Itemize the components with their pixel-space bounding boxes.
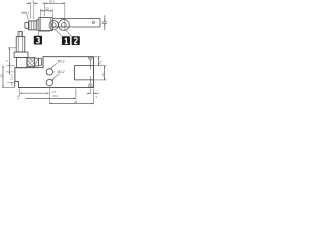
top view: sensor body — [39, 18, 52, 31]
svg-text:20.5: 20.5 — [49, 0, 55, 4]
svg-text:12.5: 12.5 — [9, 74, 13, 80]
dim 12 extension lines — [40, 9, 52, 17]
left dim 4.5 notch — [14, 82, 16, 88]
top view: bracket plate side — [53, 19, 101, 28]
front view: mounting hole 2 — [46, 79, 52, 85]
dim 3 arrows — [27, 3, 39, 4]
leader to label 1 — [56, 30, 63, 37]
dim 3 extension lines — [31, 2, 34, 19]
right dim 7.5 — [94, 57, 101, 66]
left dim 6 — [7, 48, 17, 66]
front view: washer A — [35, 58, 39, 66]
left dim 12.5 — [6, 66, 15, 83]
front view: bracket outline — [15, 57, 94, 88]
front view: slot window — [75, 66, 94, 80]
front view: flange — [14, 52, 28, 57]
bottom dim B — [25, 89, 76, 100]
bottom dim 4 — [87, 89, 99, 95]
top view: small hole in plate — [92, 21, 94, 23]
leader M9x1 — [27, 14, 29, 19]
svg-text:7.5: 7.5 — [98, 60, 102, 65]
svg-text:M9x1: M9x1 — [21, 11, 29, 15]
optical axis marker bottom — [88, 76, 92, 86]
front view: sensor stem — [18, 31, 23, 36]
top view: washer — [37, 20, 39, 30]
top view: toothed washer circle — [49, 20, 58, 29]
svg-text:Ø4.2: Ø4.2 — [58, 60, 65, 64]
dim 20.5 line — [42, 3, 64, 5]
top view: plate thickness dim — [102, 15, 107, 30]
svg-text:Ø4.2: Ø4.2 — [58, 70, 65, 74]
front view: mounting hole 1 — [46, 69, 52, 75]
top view: knurled nut — [29, 21, 37, 30]
leader to label 3 — [38, 32, 50, 36]
leader dia 4.2 lower — [51, 74, 59, 81]
front view: lower body — [16, 57, 27, 67]
bottom dim 45 — [49, 89, 93, 105]
left dim 25 — [2, 66, 15, 88]
leader dia 4.2 upper — [50, 63, 57, 70]
front view: nut cross-section hatched — [27, 58, 35, 67]
bottom ext line sensor axis — [19, 89, 21, 97]
label square 2 — [72, 36, 80, 45]
hole centerline ticks — [53, 71, 55, 73]
svg-text:35.2: 35.2 — [52, 94, 58, 98]
bottom dim A — [20, 92, 49, 94]
svg-text:4.5: 4.5 — [16, 95, 20, 100]
svg-text:45: 45 — [74, 100, 78, 104]
right dim 10 — [94, 66, 107, 80]
dim 20.5 extension lines — [44, 2, 65, 31]
front view: washer B — [38, 59, 41, 66]
svg-text:4.5: 4.5 — [10, 81, 14, 86]
svg-text:12: 12 — [45, 7, 49, 11]
dim 12 line — [40, 10, 52, 12]
svg-text:25: 25 — [0, 74, 4, 78]
optical axis marker top — [88, 57, 92, 69]
label square 1 — [62, 36, 70, 45]
svg-text:10: 10 — [101, 73, 105, 77]
label square 3 — [34, 36, 42, 45]
front view: threaded barrel — [16, 37, 25, 53]
hole axis ext line — [48, 86, 50, 104]
leader to label 2 — [65, 30, 72, 37]
top view: end cap — [25, 22, 29, 28]
top view: nut circle — [59, 20, 70, 31]
